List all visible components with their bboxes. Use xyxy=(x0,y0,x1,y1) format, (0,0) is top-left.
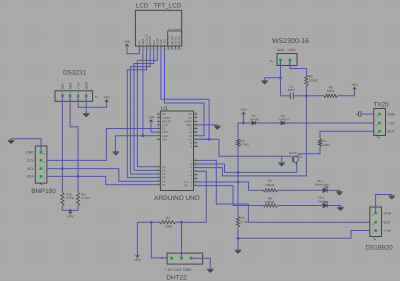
wire LCD pin2 GND down xyxy=(142,49,144,135)
svg-text:100kΩ: 100kΩ xyxy=(265,200,275,204)
svg-text:+5V: +5V xyxy=(124,40,131,44)
LCD pin stubs and pin labels xyxy=(138,46,140,49)
wire Q1 emitter down xyxy=(296,165,298,173)
resistor R1 10k xyxy=(318,139,321,147)
LED DL2 Verde xyxy=(323,201,328,208)
wire BMP180 GND to ground xyxy=(11,139,41,153)
wire TX20 OUT to R1 xyxy=(320,131,374,139)
svg-text:D/C: D/C xyxy=(153,40,156,45)
ground symbol below Q1 xyxy=(279,163,285,166)
svg-text:+5V: +5V xyxy=(240,108,247,112)
wire R5 to node xyxy=(305,86,307,96)
ground symbol above DS18B20 xyxy=(389,196,395,199)
+5V supply symbol for DHT22 xyxy=(136,254,140,257)
DS18B20 pins xyxy=(374,212,377,215)
svg-text:TFT_LCD: TFT_LCD xyxy=(154,3,182,10)
wire DHT22 GND to ground xyxy=(191,258,210,269)
ground symbol below WS2300 xyxy=(262,81,268,84)
svg-text:VIN: VIN xyxy=(162,137,167,141)
wire rail to R4 xyxy=(237,123,239,139)
wire R2 to data riser xyxy=(176,221,207,223)
DHT22 humidity sensor J1 xyxy=(167,253,203,264)
svg-text:+5V: +5V xyxy=(134,258,141,262)
wire Arduino pin to emitter net xyxy=(197,164,296,172)
svg-text:+5V: +5V xyxy=(103,96,110,100)
svg-text:GND: GND xyxy=(26,151,34,155)
svg-text:SCK: SCK xyxy=(160,39,163,45)
svg-text:TX20: TX20 xyxy=(373,102,389,109)
svg-text:+ 5V: + 5V xyxy=(384,229,392,233)
ground symbol right of Arduino xyxy=(214,126,220,129)
wire DS3231 SCL down to I2C SCL net xyxy=(61,96,63,192)
svg-text:SD_DO: SD_DO xyxy=(171,36,174,45)
svg-text:BMP180: BMP180 xyxy=(31,188,56,195)
wire Arduino pin to R7 xyxy=(197,182,248,190)
svg-text:+ 5V: + 5V xyxy=(76,82,80,90)
wire R6 to +5V xyxy=(338,91,355,96)
svg-text:+5V: +5V xyxy=(148,116,155,120)
svg-text:+ 5V: + 5V xyxy=(387,121,395,125)
svg-text:GND: GND xyxy=(142,39,145,45)
svg-text:RESET: RESET xyxy=(149,35,152,44)
svg-text:LCD: LCD xyxy=(136,3,149,10)
wire LCD pin6 to Arduino A0 xyxy=(137,49,157,166)
svg-text:4.7kΩ: 4.7kΩ xyxy=(81,196,90,200)
junction WS2300 GND xyxy=(279,76,282,79)
resistor R3 4.7k xyxy=(236,216,239,227)
+5V supply symbol for DS3231 xyxy=(105,100,109,103)
svg-text:DATA: DATA xyxy=(287,48,296,52)
wire GND net down to ground xyxy=(114,136,116,152)
wire LCD pin7 around to Arduino pin 11 xyxy=(161,49,209,139)
wire +5V rail to TX20 xyxy=(238,122,370,124)
junction SCL net xyxy=(61,167,64,170)
svg-text:OUT: OUT xyxy=(384,221,392,225)
svg-text:MOSI: MOSI xyxy=(156,38,159,45)
ground symbol after DL2 xyxy=(337,207,343,210)
wire Arduino pin to DS18B20 OUT xyxy=(197,160,369,222)
wire joining R10 R9 bottoms xyxy=(62,206,78,210)
junction DS18B20 5V net xyxy=(237,237,240,240)
wire LCD pin4 to Arduino A2 xyxy=(131,49,157,174)
svg-text:WS2300-16: WS2300-16 xyxy=(272,38,309,45)
wire LCD pin8 around to Arduino pin 12 xyxy=(165,49,205,135)
wire Arduino pin to R8 xyxy=(197,186,233,206)
wire to R8 xyxy=(233,205,263,207)
svg-text:ARDUINO UNO: ARDUINO UNO xyxy=(154,195,199,202)
svg-text:SD_DI: SD_DI xyxy=(174,37,177,45)
DHT22 pins xyxy=(170,257,173,260)
svg-text:BC547: BC547 xyxy=(289,151,298,155)
svg-text:DS18B20: DS18B20 xyxy=(365,245,393,252)
svg-text:A5: A5 xyxy=(162,183,166,187)
wire DL2 cathode to ground xyxy=(327,206,340,208)
svg-text:+5V: +5V xyxy=(67,215,74,219)
svg-text:GND: GND xyxy=(277,48,285,52)
wire DS3231 GND pin to ground xyxy=(85,96,87,114)
resistor R9 4.7k SDA pull-up xyxy=(76,192,79,206)
svg-text:+5V: +5V xyxy=(351,83,358,87)
stub TX20 +5V xyxy=(370,122,374,124)
ground symbol below R3 xyxy=(235,250,241,253)
svg-text:GND: GND xyxy=(85,81,89,89)
wire R1 to Q1 collector xyxy=(299,147,320,154)
svg-text:DHT22: DHT22 xyxy=(166,274,187,281)
wire DS18B20 GND to ground xyxy=(376,195,392,214)
wire base net to ground xyxy=(281,156,283,163)
+5V supply symbol on diode rail xyxy=(242,112,246,115)
wire to DHT22 pin1 xyxy=(151,222,167,258)
svg-text:10kΩ: 10kΩ xyxy=(322,143,330,147)
BMP180 pins xyxy=(40,151,43,154)
junction SDA net xyxy=(77,175,80,178)
svg-text:100kΩ: 100kΩ xyxy=(309,78,319,82)
WS2300 pins xyxy=(279,59,282,62)
junction pull-up +5V xyxy=(69,209,72,212)
ground symbol left of Arduino xyxy=(113,152,119,155)
junction at Arduino pin 11 xyxy=(208,138,211,141)
svg-text:SDA: SDA xyxy=(27,175,35,179)
wire DL1 cathode to ground xyxy=(327,190,339,191)
junction DHT22 +5V branch xyxy=(150,221,153,224)
svg-text:100kΩ: 100kΩ xyxy=(265,183,275,187)
junction +5V rail xyxy=(242,122,245,125)
ground symbol below DS3231 xyxy=(83,114,89,117)
svg-text:J4: J4 xyxy=(269,59,273,63)
+5V supply symbol for Arduino 5V pin xyxy=(149,120,153,123)
svg-text:1N4001: 1N4001 xyxy=(249,118,260,122)
wire DATA node to Arduino pin xyxy=(197,96,306,176)
svg-text:3.3V: 3.3V xyxy=(27,159,35,163)
junction at Arduino GND xyxy=(142,134,145,137)
wire SCL net BMP180 to Arduino A4 xyxy=(47,169,157,182)
wire WS2300 GND down to C1 xyxy=(280,60,282,96)
svg-text:SCL: SCL xyxy=(61,83,65,90)
svg-text:+ 5V OUT GND: + 5V OUT GND xyxy=(165,268,192,272)
svg-text:1N4001: 1N4001 xyxy=(279,118,290,122)
wire C1 right plate to DATA node xyxy=(293,95,306,97)
svg-text:SDA: SDA xyxy=(68,82,72,90)
svg-text:Q1: Q1 xyxy=(299,155,303,159)
wire R7 to DL1 xyxy=(278,189,323,191)
LED DL1 Arancione xyxy=(323,186,328,193)
wire Arduino pin to Q1 base xyxy=(197,139,292,156)
svg-text:SD_CS: SD_CS xyxy=(178,36,181,45)
svg-text:80nF: 80nF xyxy=(288,88,295,92)
wire Arduino GND pin to ground xyxy=(197,125,217,126)
junction DATA node xyxy=(305,94,308,97)
wire R4 to R3 xyxy=(237,146,239,216)
wire +5V branch to R2 xyxy=(137,221,159,223)
svg-text:RX←0: RX←0 xyxy=(184,184,193,188)
ground symbol after DL1 xyxy=(336,192,342,195)
wire LCD pin5 to Arduino A1 xyxy=(134,49,157,170)
svg-text:GND: GND xyxy=(384,211,392,215)
Arduino right pin stubs xyxy=(194,113,198,115)
wire WS2300 DATA to R5 xyxy=(290,60,306,75)
BMP180 pressure sensor J2 xyxy=(35,146,47,183)
svg-text:SD_SCK: SD_SCK xyxy=(167,34,170,45)
svg-text:R2: R2 xyxy=(166,216,170,220)
Arduino left pin stubs xyxy=(157,113,161,115)
svg-text:OUT: OUT xyxy=(387,130,395,134)
svg-text:4.7kΩ: 4.7kΩ xyxy=(66,196,75,200)
wire +5V to Arduino 5V pin xyxy=(151,123,157,132)
wire GND net to C1 left plate xyxy=(281,95,291,97)
TX20 pins xyxy=(378,113,381,116)
wire TX20 GND stub to C2 xyxy=(362,113,374,115)
wire R8 to DL2 xyxy=(278,205,323,207)
stub +5V to rail xyxy=(243,116,245,123)
svg-text:10kΩ: 10kΩ xyxy=(165,225,173,229)
svg-text:10kΩ: 10kΩ xyxy=(327,89,335,93)
resistor R4 4.7k xyxy=(236,139,239,146)
wire DS3231 +5V pin to +5V symbol xyxy=(78,96,107,108)
wire GND net into Arduino GND pin xyxy=(115,135,156,137)
resistor R10 4.7k SCL pull-up xyxy=(61,192,64,206)
wire DATA node to R6 xyxy=(306,95,323,97)
wire +5V net to DS18B20 xyxy=(238,231,370,239)
svg-text:Arancione: Arancione xyxy=(315,183,329,187)
ground symbol left of BMP180 xyxy=(8,140,14,143)
+5V supply symbol for LCD xyxy=(125,44,129,47)
+5V supply symbol below pull-ups xyxy=(68,210,72,213)
+5V supply symbol near TX20 xyxy=(353,87,357,90)
wire to ground xyxy=(265,78,281,81)
wire BMP180 3.3V to Arduino 3.3V pin xyxy=(47,129,157,161)
resistor R5 100k xyxy=(305,75,308,87)
svg-text:J1: J1 xyxy=(160,256,164,260)
junction DHT22 data branch xyxy=(180,221,183,224)
svg-text:4.7kΩ: 4.7kΩ xyxy=(240,142,249,146)
wire R2 left to +5V xyxy=(136,222,138,254)
wire to R7 xyxy=(249,189,264,191)
svg-text:DS3231: DS3231 xyxy=(63,70,87,77)
DS3231 pins xyxy=(61,94,64,97)
svg-text:J5: J5 xyxy=(94,95,98,99)
junction emitter net xyxy=(237,171,240,174)
wire Arduino pin to DHT22 data xyxy=(197,171,206,222)
junction LED net xyxy=(237,181,240,184)
wire SDA net BMP180 to Arduino A5 xyxy=(47,176,157,184)
svg-text:GND: GND xyxy=(387,112,395,116)
svg-text:SCL: SCL xyxy=(27,167,34,171)
wire LCD pin3 to Arduino A3 xyxy=(127,49,157,177)
wire LCD pin1 to +5V xyxy=(127,48,139,54)
DS18B20 temperature sensor J3 xyxy=(370,207,382,237)
svg-text:LED: LED xyxy=(164,40,167,45)
wire R3 to ground xyxy=(237,227,239,250)
svg-text:+5V: +5V xyxy=(138,40,141,45)
svg-text:LCD_CS: LCD_CS xyxy=(146,34,149,45)
wire to DHT22 pin2 data xyxy=(181,222,183,258)
wire DS3231 SDA down to I2C SDA net xyxy=(70,96,78,192)
ground symbol below DHT22 xyxy=(207,269,213,272)
